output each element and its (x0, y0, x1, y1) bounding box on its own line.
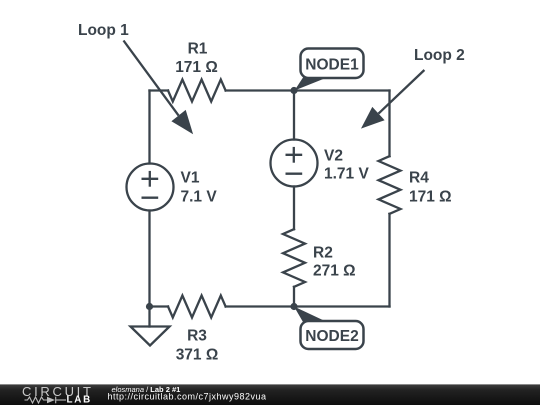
ground (131, 307, 170, 346)
svg-text:371 Ω: 371 Ω (176, 347, 219, 364)
label R2 value (313, 245, 356, 280)
footer logo resistor-diode glyph (25, 397, 67, 404)
wire top-left horizontal lead (150, 89, 169, 91)
svg-text:271 Ω: 271 Ω (313, 263, 356, 280)
node junction dot NODE2 (290, 303, 297, 310)
svg-text:V1: V1 (181, 170, 200, 187)
footer logo CIRCUIT (22, 384, 94, 399)
voltage source V2 (271, 140, 318, 187)
wire middle vertical upper (293, 91, 295, 140)
resistor R4 (379, 156, 401, 214)
label V2 value (324, 148, 369, 183)
node junction dot ground (146, 303, 153, 310)
svg-text:V2: V2 (324, 148, 343, 165)
wire middle vertical lower (293, 287, 295, 307)
svg-text:NODE1: NODE1 (305, 57, 359, 74)
svg-text:171 Ω: 171 Ω (409, 189, 452, 206)
svg-text:R1: R1 (188, 41, 208, 58)
footer bar (0, 384, 540, 405)
svg-text:NODE2: NODE2 (305, 328, 358, 345)
svg-text:LAB: LAB (67, 394, 93, 405)
annotation Loop 1 label (78, 22, 129, 39)
wire bottom-left lead (150, 305, 169, 307)
wire bottom horizontal to right corner (226, 305, 390, 307)
annotation Loop 2 arrow (361, 70, 424, 129)
footer credit line 1 (112, 385, 181, 394)
node NODE1 callout (295, 49, 364, 91)
footer logo LAB (67, 394, 93, 405)
svg-text:7.1 V: 7.1 V (181, 189, 218, 206)
label R3 value (176, 328, 219, 364)
svg-text:R3: R3 (187, 328, 207, 345)
wire left vertical upper (148, 91, 150, 164)
svg-text:R4: R4 (409, 170, 429, 187)
annotation Loop 1 arrow (124, 41, 194, 135)
voltage source V1 (127, 164, 174, 211)
node junction dot NODE1 (290, 87, 297, 94)
resistor R3 (168, 296, 226, 318)
svg-text:http://circuitlab.com/c7jxhwy9: http://circuitlab.com/c7jxhwy982vua (108, 392, 267, 402)
resistor R2 (283, 229, 305, 287)
node NODE2 callout (294, 307, 364, 350)
wire right vertical lower (388, 214, 390, 307)
label V1 value (181, 170, 218, 206)
resistor R1 (168, 80, 226, 102)
svg-text:R2: R2 (313, 245, 333, 262)
svg-text:171 Ω: 171 Ω (175, 59, 218, 76)
svg-text:1.71 V: 1.71 V (324, 166, 369, 183)
footer credit line 2 (108, 392, 267, 402)
annotation Loop 2 label (414, 47, 465, 64)
svg-text:Loop 2: Loop 2 (414, 47, 465, 64)
wire top horizontal to right corner (226, 89, 390, 91)
label R1 value (175, 41, 218, 77)
wire left vertical lower (148, 211, 150, 307)
wire middle vertical between V2 and R2 (293, 187, 295, 230)
label R4 value (409, 170, 452, 206)
svg-text:Loop 1: Loop 1 (78, 22, 129, 39)
wire right vertical upper (388, 91, 390, 157)
